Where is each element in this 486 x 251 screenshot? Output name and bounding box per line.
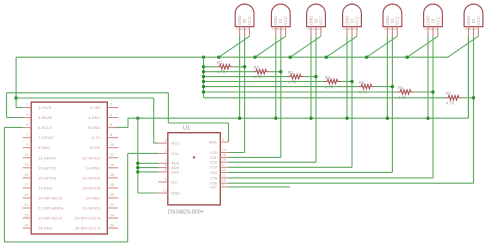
svg-text:IO5: IO5 — [210, 175, 217, 180]
svg-text:IO7: IO7 — [210, 184, 217, 189]
svg-text:24: 24 — [110, 213, 114, 217]
svg-text:SCL: SCL — [171, 151, 180, 156]
svg-text:3: 3 — [26, 113, 28, 117]
svg-text:10: 10 — [110, 143, 114, 147]
svg-text:12: 12 — [110, 153, 114, 157]
svg-text:GND: GND — [171, 190, 180, 195]
svg-text:9-DNC: 9-DNC — [38, 145, 50, 150]
svg-text:25: 25 — [24, 223, 28, 227]
svg-text:15: 15 — [24, 173, 28, 177]
svg-text:12-GPIO1: 12-GPIO1 — [82, 155, 101, 160]
svg-text:VCC: VCC — [283, 16, 288, 25]
svg-text:VCC: VCC — [171, 141, 180, 146]
svg-text:13-GPIO2: 13-GPIO2 — [38, 165, 57, 170]
svg-text:R6: R6 — [398, 85, 404, 90]
svg-text:U1: U1 — [183, 126, 190, 132]
svg-text:14: 14 — [110, 163, 114, 167]
svg-text:17-DNC: 17-DNC — [38, 185, 53, 190]
svg-text:24-SPI-CE0-N: 24-SPI-CE0-N — [75, 216, 101, 221]
svg-text:23-SPI-SCLK: 23-SPI-SCLK — [38, 216, 63, 221]
svg-text:4: 4 — [110, 113, 112, 117]
svg-text:22-GPIO6: 22-GPIO6 — [82, 206, 101, 211]
svg-text:16-GPIO4: 16-GPIO4 — [82, 175, 101, 180]
svg-text:7: 7 — [26, 133, 28, 137]
svg-text:PL9823F8: PL9823F8 — [465, 27, 479, 31]
svg-text:8: 8 — [165, 167, 167, 171]
svg-text:R5: R5 — [359, 80, 365, 85]
svg-text:R1: R1 — [217, 60, 223, 65]
svg-text:1: 1 — [222, 163, 224, 167]
svg-text:9: 9 — [26, 143, 28, 147]
svg-text:13: 13 — [24, 163, 28, 167]
svg-text:13: 13 — [163, 189, 167, 193]
svg-text:20-DNC: 20-DNC — [86, 195, 101, 200]
svg-text:PL9823F8: PL9823F8 — [384, 27, 398, 31]
svg-text:4: 4 — [165, 139, 167, 143]
svg-text:4-DNC: 4-DNC — [88, 115, 100, 120]
svg-text:23: 23 — [24, 213, 28, 217]
svg-text:3-SDA0: 3-SDA0 — [38, 115, 53, 120]
svg-text:SDA: SDA — [209, 139, 218, 144]
svg-text:22: 22 — [110, 203, 114, 207]
svg-text:R2: R2 — [253, 65, 259, 70]
svg-text:DS2482S-800+: DS2482S-800+ — [168, 210, 204, 216]
svg-text:VCC: VCC — [318, 16, 323, 25]
svg-text:12: 12 — [222, 168, 226, 172]
svg-text:6: 6 — [110, 123, 112, 127]
svg-text:26-SPI-CE1-N: 26-SPI-CE1-N — [75, 226, 101, 231]
svg-text:PL9823F8: PL9823F8 — [236, 27, 250, 31]
svg-text:10-RX: 10-RX — [89, 145, 101, 150]
svg-text:14: 14 — [222, 148, 226, 152]
svg-text:7-GPIO7: 7-GPIO7 — [38, 135, 55, 140]
svg-text:PL9823F8: PL9823F8 — [307, 27, 321, 31]
svg-text:AD2: AD2 — [171, 169, 180, 174]
svg-text:9: 9 — [222, 182, 224, 186]
svg-text:VCC: VCC — [435, 16, 440, 25]
svg-text:VCC: VCC — [395, 16, 400, 25]
svg-text:15: 15 — [222, 153, 226, 157]
svg-text:IO4: IO4 — [210, 170, 217, 175]
svg-text:26: 26 — [110, 223, 114, 227]
svg-text:VCC: VCC — [476, 16, 481, 25]
svg-text:16: 16 — [110, 173, 114, 177]
svg-text:17: 17 — [24, 183, 28, 187]
svg-text:20: 20 — [110, 193, 114, 197]
svg-text:2: 2 — [165, 149, 167, 153]
svg-text:2-+5V: 2-+5V — [90, 105, 101, 110]
svg-text:R4: R4 — [325, 75, 331, 80]
svg-text:14-DNC: 14-DNC — [86, 165, 101, 170]
svg-text:2: 2 — [110, 103, 112, 107]
svg-text:NC: NC — [171, 179, 177, 184]
svg-text:18: 18 — [110, 183, 114, 187]
svg-text:19: 19 — [24, 193, 28, 197]
svg-text:11-GPIO0: 11-GPIO0 — [38, 155, 57, 160]
svg-text:5-SCL0: 5-SCL0 — [38, 125, 52, 130]
svg-text:19-SPI-MOSI: 19-SPI-MOSI — [38, 195, 62, 200]
svg-text:18-GPIO5: 18-GPIO5 — [82, 185, 101, 190]
svg-text:PL9823F8: PL9823F8 — [424, 27, 438, 31]
svg-text:21: 21 — [24, 203, 28, 207]
svg-text:VCC: VCC — [354, 16, 359, 25]
svg-text:4.7k: 4.7k — [446, 101, 455, 106]
svg-text:VCC: VCC — [247, 16, 252, 25]
svg-text:PL9823F8: PL9823F8 — [272, 27, 286, 31]
svg-text:15-GPIO3: 15-GPIO3 — [38, 175, 57, 180]
svg-text:3: 3 — [222, 138, 224, 142]
svg-text:1: 1 — [26, 103, 28, 107]
svg-text:16: 16 — [222, 158, 226, 162]
svg-text:25-DNC: 25-DNC — [38, 226, 53, 231]
svg-text:11: 11 — [222, 173, 226, 177]
svg-text:R7: R7 — [446, 91, 452, 96]
svg-text:5: 5 — [26, 123, 28, 127]
svg-text:PL9823F8: PL9823F8 — [343, 27, 357, 31]
svg-text:6-GND: 6-GND — [88, 125, 101, 130]
svg-text:11: 11 — [25, 153, 29, 157]
svg-text:21-SPI-MISO•: 21-SPI-MISO• — [38, 206, 64, 211]
svg-text:1-+3V3: 1-+3V3 — [38, 105, 52, 110]
svg-text:5: 5 — [165, 178, 167, 182]
svg-text:R3: R3 — [288, 70, 294, 75]
svg-text:8: 8 — [110, 133, 112, 137]
svg-text:8-TX: 8-TX — [92, 135, 101, 140]
